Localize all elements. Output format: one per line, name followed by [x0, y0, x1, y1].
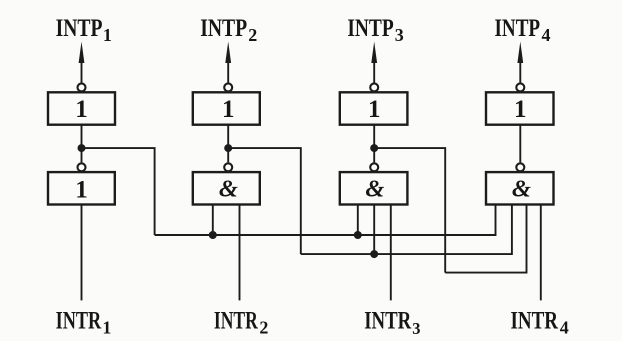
svg-text:&: & — [512, 176, 531, 203]
label INTR1 — [56, 305, 112, 337]
gate U6 AND "&" (col2 bottom) — [193, 172, 260, 204]
inversion bubble on output of gate U1 (col1 top) — [78, 83, 86, 91]
gate U3 buffer "1" (col3 top) — [340, 92, 408, 124]
wire col1 box to node A — [81, 125, 83, 163]
svg-text:INTP: INTP — [495, 13, 541, 42]
wire col4 box to bubble — [519, 125, 521, 163]
inversion bubble input of gate U7 (col3 bottom) — [370, 163, 378, 171]
wire col3 box to node C — [373, 125, 375, 163]
bus 2 horizontal wire — [301, 205, 512, 255]
wire node C feedback to bus 3 — [374, 148, 445, 273]
arrow INTP3 output — [371, 42, 377, 83]
node C junction dot (col3) — [370, 144, 378, 152]
gate U7 AND "&" (col3 bottom) — [340, 172, 408, 204]
svg-text:INTR: INTR — [214, 305, 258, 334]
label INTR2 — [214, 305, 269, 337]
svg-text:1: 1 — [222, 96, 235, 123]
node B junction dot (col2) — [224, 144, 232, 152]
wire INTR4 input — [540, 205, 542, 301]
svg-text:1: 1 — [75, 177, 88, 204]
svg-text:INTR: INTR — [56, 305, 102, 334]
svg-text:INTP: INTP — [200, 13, 247, 42]
wire INTR3 input — [390, 205, 392, 301]
junction dot bus1/U7 — [354, 231, 362, 239]
bus 1 horizontal wire — [155, 205, 496, 236]
inversion bubble on output of gate U3 (col3 top) — [370, 83, 378, 91]
label INTP4 — [495, 13, 551, 45]
label INTP2 — [200, 13, 257, 45]
svg-text:&: & — [365, 176, 384, 203]
svg-text:INTP: INTP — [347, 13, 393, 42]
inversion bubble on output of gate U4 (col4 top) — [516, 83, 524, 91]
svg-text:1: 1 — [75, 96, 88, 123]
label INTR3 — [364, 305, 420, 337]
svg-text:3: 3 — [412, 319, 420, 338]
svg-text:INTR: INTR — [511, 305, 559, 334]
svg-text:2: 2 — [259, 318, 268, 338]
wire INTR2 input — [239, 205, 241, 301]
wire U7 input from bus 1 — [357, 205, 359, 236]
gate U2 buffer "1" (col2 top) — [193, 92, 260, 124]
svg-text:4: 4 — [560, 318, 569, 338]
gate U4 buffer "1" (col4 top) — [486, 92, 554, 124]
svg-text:&: & — [219, 176, 238, 203]
junction dot bus2/U7 — [370, 250, 378, 258]
gate U8 AND "&" (col4 bottom) — [486, 172, 554, 204]
svg-text:INTP: INTP — [56, 13, 103, 42]
svg-text:INTR: INTR — [364, 305, 411, 334]
node A junction dot (col1) — [78, 144, 86, 152]
svg-text:1: 1 — [102, 318, 111, 338]
svg-text:3: 3 — [395, 25, 404, 45]
svg-text:2: 2 — [248, 25, 257, 45]
bus 3 horizontal wire — [445, 205, 526, 273]
inversion bubble input of gate U6 (col2 bottom) — [224, 163, 232, 171]
gate U1 buffer "1" (col1 top) — [48, 92, 115, 124]
label INTP1 — [56, 13, 112, 45]
arrow INTP1 output — [79, 42, 85, 83]
wire node A feedback to bus 1 — [82, 148, 155, 235]
arrow INTP2 output — [225, 42, 231, 83]
svg-text:1: 1 — [514, 96, 527, 123]
wire node B feedback to bus 2 — [228, 148, 301, 254]
inversion bubble input of gate U5 (col1 bottom) — [78, 163, 86, 171]
wire INTR1 input — [81, 205, 83, 301]
svg-text:4: 4 — [542, 25, 551, 45]
inversion bubble on output of gate U2 (col2 top) — [224, 83, 232, 91]
svg-text:1: 1 — [368, 96, 381, 123]
label INTP3 — [347, 13, 403, 45]
inversion bubble input of gate U8 (col4 bottom) — [516, 163, 524, 171]
svg-text:1: 1 — [103, 25, 112, 45]
wire U7 input from bus 2 — [373, 205, 375, 255]
wire U6 input from bus 1 — [212, 205, 214, 236]
junction dot bus1/U6 — [209, 231, 217, 239]
arrow INTP4 output — [517, 42, 523, 83]
wire col2 box to node B — [227, 125, 229, 163]
gate U5 buffer "1" (col1 bottom) — [48, 172, 115, 204]
label INTR4 — [511, 305, 569, 337]
